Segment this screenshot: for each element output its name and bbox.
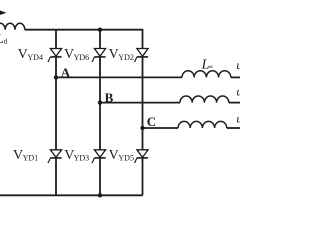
wire phase c right xyxy=(227,127,240,129)
thyristor VYD1 xyxy=(48,150,62,163)
thyristor VYD2 xyxy=(134,49,148,62)
inductor phase c xyxy=(178,121,227,128)
svg-text:V: V xyxy=(18,47,28,62)
svg-text:V: V xyxy=(64,47,74,62)
thyristor VYD6 xyxy=(92,49,106,62)
svg-text:YD4: YD4 xyxy=(27,53,43,62)
thyristor VYD4 xyxy=(48,49,62,62)
node junction top bus xyxy=(98,28,102,32)
svg-text:YD1: YD1 xyxy=(23,154,39,163)
svg-text:V: V xyxy=(109,47,119,62)
wire branch2 middle xyxy=(99,57,101,149)
svg-text:C: C xyxy=(147,114,156,129)
wire branch3 upper xyxy=(142,30,144,49)
wire branch3 lower xyxy=(142,158,144,195)
wire bottom bus xyxy=(0,194,143,196)
thyristor VYD3 xyxy=(92,150,106,163)
wire branch1 lower xyxy=(55,158,57,195)
svg-text:YD5: YD5 xyxy=(118,154,134,163)
wire branch1 middle xyxy=(55,57,57,149)
wire phase a right xyxy=(231,76,240,78)
svg-text:YD6: YD6 xyxy=(74,53,90,62)
node B xyxy=(98,100,102,104)
thyristor VYD5 xyxy=(134,150,148,163)
node C xyxy=(140,126,144,130)
svg-text:YD2: YD2 xyxy=(118,53,134,62)
wire phase a xyxy=(56,76,182,78)
wire phase b right xyxy=(229,102,240,104)
node junction bottom bus xyxy=(98,193,102,197)
wire branch1 upper xyxy=(55,30,57,49)
wire top bus xyxy=(25,29,144,31)
wire phase c xyxy=(143,127,179,129)
svg-text:V: V xyxy=(13,148,23,163)
svg-text:B: B xyxy=(105,90,114,105)
svg-text:u: u xyxy=(236,112,240,126)
inductor Ld coil xyxy=(0,23,25,29)
wire phase b xyxy=(100,102,180,104)
svg-text:u: u xyxy=(236,85,240,99)
svg-text:d: d xyxy=(4,36,8,45)
node A xyxy=(54,75,58,79)
current arrow Id xyxy=(0,10,6,15)
inductor Lac phase a xyxy=(182,71,231,78)
svg-text:V: V xyxy=(109,148,119,163)
svg-text:A: A xyxy=(61,65,71,80)
svg-text:u: u xyxy=(236,58,240,72)
svg-text:YD3: YD3 xyxy=(74,154,90,163)
wire branch2 lower xyxy=(99,158,101,195)
inductor phase b xyxy=(180,96,229,103)
wire branch3 middle xyxy=(142,57,144,149)
wire branch2 upper xyxy=(99,30,101,49)
svg-text:ac: ac xyxy=(209,65,214,70)
